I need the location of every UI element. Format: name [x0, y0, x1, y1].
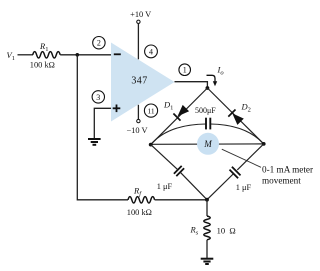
svg-text:1 μF: 1 μF — [236, 183, 252, 192]
pin 2 label — [93, 37, 105, 49]
+10 V supply terminal — [130, 10, 151, 60]
wire Rf to bridge bottom — [155, 199, 207, 201]
ground (non-inverting input) — [88, 139, 101, 145]
node bridge left vertex — [149, 143, 153, 147]
pin 1 label — [179, 64, 191, 76]
wire non-inverting input — [94, 108, 111, 138]
resistor Rf — [127, 186, 155, 218]
node junction A (R1 / Rf tap) — [76, 53, 80, 57]
label 0-1 mA meter movement — [262, 164, 313, 185]
wire Rs to ground — [206, 240, 208, 258]
svg-text:1: 1 — [183, 66, 187, 75]
svg-text:+10 V: +10 V — [130, 10, 151, 19]
-10 V supply terminal — [126, 105, 147, 135]
pin 4 label — [145, 45, 158, 58]
capacitor 500uF — [195, 106, 216, 129]
svg-text:0-1 mA meter: 0-1 mA meter — [262, 164, 313, 174]
pin 11 label — [144, 104, 157, 117]
svg-text:M: M — [203, 139, 212, 149]
svg-text:−10 V: −10 V — [126, 126, 147, 135]
wire bridge edge top-left (with D1) — [151, 88, 208, 145]
current arrow Io — [207, 65, 225, 87]
diode D2 — [228, 102, 251, 125]
wire arc left vertex to capacitor — [151, 124, 206, 145]
svg-text:347: 347 — [131, 76, 147, 87]
op-amp U1 (347) — [111, 43, 175, 122]
ground (below Rs) — [201, 259, 214, 264]
wire V1 to R1 — [18, 54, 34, 56]
wire junction A down to Rf — [77, 55, 128, 200]
svg-text:2: 2 — [97, 39, 101, 48]
pin 3 label — [92, 91, 104, 103]
wire arc capacitor to right vertex — [210, 124, 263, 144]
resistor R1 — [30, 41, 60, 70]
resistor Rs — [190, 216, 236, 240]
wire R1 to inverting input — [60, 54, 111, 56]
wire bridge edge top-right (with D2) — [207, 88, 263, 144]
svg-text:100 kΩ: 100 kΩ — [30, 61, 55, 70]
wire bridge edge bottom-right (with C 1uF) — [207, 144, 264, 200]
svg-text:500μF: 500μF — [195, 106, 216, 115]
svg-text:movement: movement — [262, 176, 301, 186]
wire bridge edge bottom-left (with C 1uF) — [151, 145, 207, 200]
svg-text:3: 3 — [96, 93, 100, 102]
capacitor C2 1uF — [230, 167, 252, 192]
svg-text:4: 4 — [149, 47, 153, 56]
callout line to meter — [222, 149, 261, 167]
wire meter branch — [151, 143, 264, 145]
svg-text:10 Ω: 10 Ω — [217, 225, 236, 235]
wire op-amp output to bridge top — [175, 82, 208, 88]
svg-text:100 kΩ: 100 kΩ — [127, 208, 152, 217]
capacitor C1 1uF — [157, 166, 184, 191]
node bridge top vertex — [206, 86, 210, 90]
node bridge bottom vertex — [205, 198, 209, 202]
node bridge right vertex — [262, 142, 266, 146]
wire bottom vertex to Rs — [206, 200, 208, 216]
svg-text:11: 11 — [147, 107, 154, 116]
svg-text:1 μF: 1 μF — [157, 182, 173, 191]
diode D1 — [163, 100, 189, 121]
meter M — [197, 133, 219, 155]
